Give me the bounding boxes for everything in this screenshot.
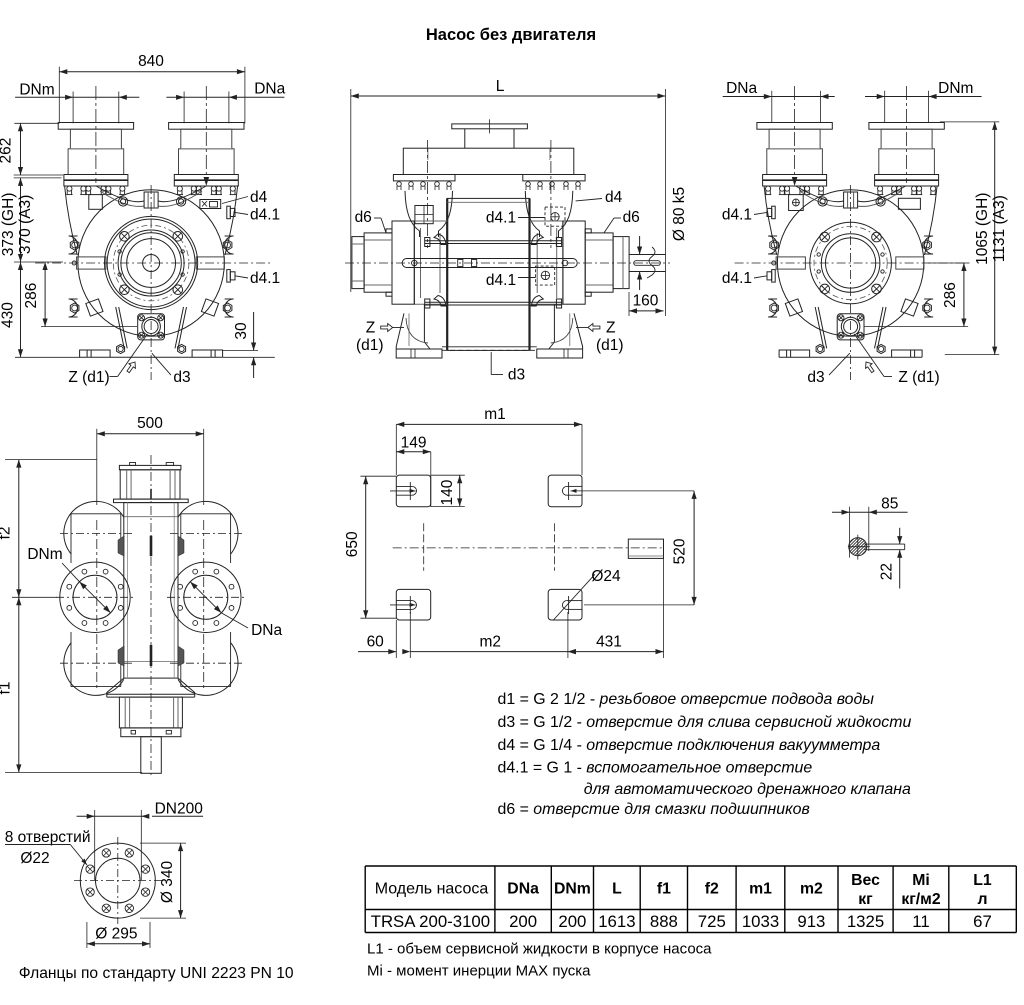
foot LL: [396, 589, 430, 620]
left horizontal stub: [77, 257, 106, 269]
right end cap: [613, 237, 629, 289]
right head plate: [562, 221, 564, 304]
left end cap: [352, 237, 364, 289]
port flange bolts: [177, 186, 183, 195]
shaft: [629, 254, 666, 256]
casing upper-left outline: [65, 186, 78, 255]
casing horizontal centerline: [35, 262, 270, 264]
svg-text:22: 22: [879, 563, 896, 580]
foot LR: [548, 589, 582, 620]
dimension 262 extension lines: [14, 122, 59, 124]
plan centerlines: [393, 547, 664, 549]
svg-text:d4: d4: [250, 189, 268, 206]
right port tube lines: [230, 514, 232, 563]
dimension 500 extension/centerlines: [96, 429, 98, 505]
svg-text:d3: d3: [807, 369, 824, 386]
svg-text:DNa: DNa: [507, 881, 539, 898]
dimension DNa line: [166, 96, 284, 98]
upper tie rod hooks: [434, 234, 446, 245]
svg-text:d3: d3: [508, 367, 525, 384]
dimension 286 extensions (right view): [928, 262, 968, 264]
svg-text:840: 840: [138, 53, 164, 70]
right port flange strip: [523, 175, 585, 181]
dimension L: [351, 95, 666, 97]
left port tube lines: [70, 514, 72, 563]
top plate: [403, 148, 574, 174]
casing upper-right lug with hex bolt: [225, 236, 234, 254]
svg-text:430: 430: [0, 302, 17, 328]
svg-text:Z: Z: [366, 320, 375, 337]
svg-text:85: 85: [881, 496, 898, 513]
svg-text:DNa: DNa: [254, 81, 285, 98]
left diagonal strut: [116, 307, 125, 348]
svg-text:DNm: DNm: [938, 80, 973, 97]
key slot: [865, 543, 905, 545]
dimension 840 extension lines: [58, 67, 60, 124]
svg-text:кг: кг: [858, 891, 873, 908]
dimension 149: [396, 451, 431, 453]
dimension Ø295: [87, 943, 150, 945]
svg-text:Модель насоса: Модель насоса: [375, 881, 489, 898]
dimension DN200 line: [77, 815, 148, 817]
port flange bolts: [66, 186, 72, 195]
svg-text:d4.1: d4.1: [722, 270, 752, 287]
port bottom flange: [64, 175, 128, 187]
svg-text:d1 = G 2 1/2 - резьбовое отвер: d1 = G 2 1/2 - резьбовое отверстие подво…: [498, 691, 875, 708]
port flange top plate: [757, 123, 832, 130]
right foot (center view): [537, 313, 583, 358]
bolts under right strip: [526, 182, 531, 187]
left view: d4.1 plug lower: [227, 270, 231, 283]
svg-text:d3 = G 1/2 - отверстие для сл: d3 = G 1/2 - отверстие для слива сервисн…: [498, 714, 912, 731]
dimension 650 extensions: [360, 475, 396, 477]
svg-text:(d1): (d1): [596, 337, 624, 354]
dimension Ø340: [180, 843, 182, 918]
svg-text:500: 500: [137, 415, 163, 432]
port flange top plate: [169, 123, 244, 130]
left head plate: [413, 221, 415, 304]
svg-text:DNm: DNm: [27, 546, 62, 563]
lower tie rod hooks: [434, 296, 446, 307]
casing upper-right outline: [924, 186, 937, 255]
shaft key slot: [634, 261, 661, 266]
tube end lines: [71, 513, 121, 515]
label d3 with leader (center view): [490, 352, 492, 374]
dimension m1 extension lines: [395, 424, 397, 475]
svg-text:d4 = G 1/4 - отверстие подклю: d4 = G 1/4 - отверстие подключения вакуу…: [498, 737, 881, 754]
svg-text:149: 149: [401, 435, 427, 452]
svg-text:67: 67: [973, 912, 992, 931]
svg-text:1131 (A3): 1131 (A3): [991, 195, 1008, 262]
svg-text:L1 - объем сервисной жидкости: L1 - объем сервисной жидкости в корпусе …: [367, 941, 712, 958]
dimension 160: [629, 310, 664, 312]
svg-text:1613: 1613: [598, 912, 635, 931]
bolts under left strip: [397, 182, 402, 187]
svg-text:1325: 1325: [847, 912, 884, 931]
feet baseline: [80, 356, 223, 358]
svg-text:140: 140: [439, 479, 456, 505]
dimension 500: [97, 433, 204, 435]
svg-text:725: 725: [698, 912, 726, 931]
port centerline: [906, 86, 908, 183]
foot UR: [548, 475, 582, 507]
dimension 431: [568, 651, 664, 653]
top lifting flange: [452, 124, 528, 129]
label d4 with leader: [222, 197, 248, 204]
bottom d1 flange corner bolts: [139, 315, 145, 321]
port neck: [881, 129, 932, 149]
dimension f1: [18, 597, 20, 772]
dimension 286 bottom extension: [41, 326, 137, 328]
port neck: [769, 129, 820, 149]
d4.1 dashed box lower: [536, 266, 555, 285]
svg-text:286: 286: [23, 283, 40, 309]
dimension 286 (right view): [963, 263, 965, 327]
Ø24 diagonal leader: [553, 574, 595, 620]
port neck: [70, 129, 121, 149]
saddle center lug: [144, 192, 158, 208]
dimension 1065/1131 extension lines: [940, 121, 999, 123]
d4.1 dashed box upper: [545, 207, 565, 226]
dimension L extension lines: [350, 89, 352, 292]
svg-text:Mi: Mi: [912, 872, 930, 889]
bottom chain extension lines: [395, 620, 397, 658]
dimension 373 (GH) / 370 (A3): [20, 178, 22, 262]
svg-text:DNm: DNm: [19, 82, 54, 99]
right horizontal stub: [896, 257, 924, 269]
svg-text:Ø 80 k5: Ø 80 k5: [671, 187, 688, 241]
bottom d1 flange square: [138, 314, 165, 340]
casing lower-left lug with hex bolt: [69, 299, 78, 317]
dimension 520: [693, 491, 695, 605]
foot notches (center view): [410, 349, 412, 358]
tie rod hooks seen from top (dark wedges): [118, 536, 124, 556]
right pedestal: [525, 191, 539, 237]
svg-text:L1: L1: [973, 872, 992, 889]
svg-text:DN200: DN200: [155, 801, 204, 818]
foot UL: [396, 475, 430, 507]
port bottom flange: [174, 175, 238, 187]
casing lower-right lug with hex bolt: [225, 299, 234, 317]
right view: d4.1 plug upper (left side): [772, 206, 776, 219]
svg-text:30: 30: [233, 322, 250, 340]
flange centerlines: [117, 837, 119, 924]
shaft section hatched circle: [849, 538, 867, 556]
port flange top plate: [58, 123, 133, 130]
dimension 140 extensions: [431, 474, 465, 476]
svg-text:L: L: [612, 881, 622, 898]
svg-text:11: 11: [912, 912, 929, 931]
gland rod capsule: [402, 259, 577, 268]
casing upper-left lug with hex bolt: [69, 236, 78, 254]
top stool body: [120, 470, 180, 499]
svg-text:d4.1: d4.1: [486, 210, 516, 227]
saddle center lug: [844, 192, 858, 208]
dimension 373/370 extension line: [14, 177, 62, 179]
svg-text:Mi - момент инерции MAX пуска: Mi - момент инерции MAX пуска: [367, 963, 591, 980]
svg-text:m1: m1: [749, 881, 772, 898]
left diagonal boss: [785, 299, 802, 316]
dimension 85: [832, 511, 908, 513]
svg-text:Ø 340: Ø 340: [159, 861, 176, 904]
bottom d1 flange square: [837, 314, 864, 340]
port flange bolts: [765, 186, 771, 195]
left diagonal strut: [815, 307, 824, 348]
dimension Ø295 extensions: [86, 922, 88, 948]
svg-text:d4: d4: [605, 189, 623, 206]
casing outer circle: [78, 190, 224, 336]
left view: upper-left square boss: [89, 195, 103, 210]
svg-text:200: 200: [509, 912, 537, 931]
DN200 extension lines: [94, 810, 96, 880]
dimension 286: [44, 262, 46, 327]
dimension 60: [358, 651, 396, 653]
port flange top plate: [869, 123, 944, 130]
stool base plate: [114, 499, 189, 503]
central body: [447, 198, 529, 350]
dimension DNa line (right view): [723, 96, 835, 98]
dimension f1 bottom extension: [5, 771, 142, 773]
svg-text:Z: Z: [606, 320, 615, 337]
svg-text:Z (d1): Z (d1): [898, 369, 939, 386]
shaft break squiggle: [647, 247, 655, 278]
dimension 149 extension line: [430, 452, 432, 507]
left foot hex bolt: [816, 344, 824, 353]
dimension f2: [18, 460, 20, 598]
svg-text:286: 286: [942, 282, 959, 308]
top stool plate: [119, 465, 180, 469]
right flange circle DNa: [171, 562, 241, 632]
left view: bolt circle dashed: [113, 225, 189, 301]
left foot pad: [80, 350, 111, 357]
svg-text:Ø 295: Ø 295: [95, 926, 137, 943]
dimension 430: [20, 262, 22, 357]
port pipe body: [179, 149, 235, 175]
left foot pad: [779, 350, 810, 357]
bottom d1 flange circles: [142, 317, 161, 336]
top view main centerline: [150, 455, 152, 776]
svg-text:m2: m2: [800, 881, 823, 898]
right view: cover bolts: [872, 232, 882, 242]
casing upper-right lug with hex bolt: [924, 236, 933, 254]
dimension 140: [459, 475, 461, 506]
flange bore circle: [96, 858, 141, 903]
flange outer circle: [80, 843, 155, 918]
casing vertical centerline: [150, 185, 152, 380]
dimension 160 extensions: [628, 292, 630, 316]
svg-text:f2: f2: [0, 527, 14, 540]
left housing bolts: [386, 229, 392, 233]
label d3 (right view) with leader: [829, 353, 850, 375]
svg-text:d6 = отверстие для смазки подш: d6 = отверстие для смазки подшипников: [498, 801, 810, 818]
svg-text:DNm: DNm: [554, 881, 591, 898]
square boss on left pedestal: [415, 206, 433, 224]
left foot (center view): [396, 313, 442, 358]
svg-text:1033: 1033: [742, 912, 779, 931]
bottom trapezoid (volute end): [107, 678, 195, 694]
svg-text:d6: d6: [623, 209, 640, 226]
svg-text:л: л: [977, 891, 987, 908]
bottom bearing bracket (top view): [119, 697, 182, 728]
svg-text:m1: m1: [484, 406, 506, 423]
dimension DNm line: [15, 96, 139, 98]
dimension 430 bottom extension: [15, 356, 80, 358]
saddle eye lug left: [119, 197, 128, 206]
520 bottom extension line: [584, 604, 694, 606]
right diagonal boss: [201, 299, 218, 316]
dimension Ø340 extensions: [140, 842, 186, 844]
svg-text:Ø24: Ø24: [591, 568, 621, 585]
flange centerlines: [56, 596, 134, 598]
svg-text:d3: d3: [173, 369, 190, 386]
right view: upper-right plain box: [898, 198, 920, 209]
svg-text:370 (A3): 370 (A3): [17, 195, 34, 254]
left port flange strip: [393, 175, 455, 181]
right view: suction bore circles: [826, 238, 876, 288]
DNm bore extension lines: [72, 92, 74, 124]
casing bottom lines: [442, 346, 537, 348]
dimension 650: [365, 476, 367, 618]
DNm bore extension lines (right view): [884, 91, 886, 123]
shaft stub (plan): [628, 539, 663, 558]
right foot hex bolt: [877, 344, 885, 353]
right diagonal boss: [901, 299, 918, 316]
svg-text:160: 160: [633, 293, 659, 310]
svg-text:262: 262: [0, 138, 15, 164]
dimension DNm line (right view): [865, 96, 982, 98]
dome centerlines: [60, 533, 132, 535]
port bottom flange: [763, 175, 827, 187]
svg-text:m2: m2: [480, 634, 502, 651]
upper-left dome arc: [64, 501, 124, 554]
left view: DNa port flow arrow: [204, 177, 210, 186]
left view: bearing cover bolts: [173, 232, 183, 242]
svg-text:Ø22: Ø22: [20, 850, 49, 867]
dimension Ø80 k5: [639, 236, 641, 255]
left pedestal: [405, 191, 420, 237]
port pipe body: [68, 149, 124, 175]
port bottom flange: [875, 175, 939, 187]
left bearing housing: [364, 233, 392, 292]
svg-text:кг/м2: кг/м2: [901, 891, 941, 908]
svg-text:373 (GH): 373 (GH): [0, 193, 17, 257]
casing top saddle arc: [96, 186, 206, 202]
svg-text:(d1): (d1): [356, 337, 384, 354]
svg-text:200: 200: [558, 912, 586, 931]
flange bolt holes: [141, 865, 149, 873]
saddle eye lug right: [876, 197, 885, 206]
dimension 22: [899, 528, 901, 544]
saddle eye lug right: [177, 197, 186, 206]
table frame: [364, 866, 366, 933]
svg-text:650: 650: [344, 531, 361, 557]
svg-text:913: 913: [797, 912, 825, 931]
svg-text:f1: f1: [657, 881, 671, 898]
label d4.1 upper with leader: [235, 212, 248, 214]
svg-text:d4.1: d4.1: [486, 272, 516, 289]
DNa bore extension lines: [183, 92, 185, 124]
svg-text:TRSA 200-3100: TRSA 200-3100: [371, 912, 490, 931]
svg-text:Z (d1): Z (d1): [68, 369, 109, 386]
casing lower-right lug with hex bolt: [924, 299, 933, 317]
left bearing bracket: [392, 221, 414, 304]
lower tie rod: [425, 301, 562, 303]
casing lower-left lug with hex bolt: [768, 299, 777, 317]
svg-text:DNa: DNa: [726, 80, 757, 97]
left view: d4.1 plug upper: [227, 206, 231, 219]
svg-text:Вес: Вес: [851, 872, 880, 889]
bottom bracket plate: [121, 728, 181, 737]
casing vertical centerline: [850, 185, 852, 380]
dimension f2 extension lines: [5, 459, 97, 461]
svg-text:431: 431: [596, 634, 622, 651]
left horizontal stub: [776, 257, 805, 269]
left flange circle DNm: [60, 562, 130, 632]
label d4.1 lower (right view): [754, 276, 767, 278]
svg-text:f2: f2: [705, 881, 719, 898]
casing horizontal centerline: [735, 262, 970, 264]
upper tie rod: [425, 240, 562, 242]
left view: hub circles (drive end): [143, 255, 160, 272]
right diagonal strut: [878, 307, 887, 348]
upper-right dome arc: [178, 501, 238, 554]
svg-text:d4.1: d4.1: [250, 207, 280, 224]
right diagonal strut: [178, 307, 187, 348]
casing top saddle arc: [796, 186, 906, 202]
center dark pin lines: [150, 536, 153, 557]
saddle eye lug left: [818, 197, 827, 206]
dimension m2: [410, 651, 568, 653]
casing upper-right outline: [225, 186, 238, 255]
right bearing housing: [585, 233, 613, 292]
right foot hex bolt: [178, 344, 186, 353]
label d4.1 upper (right view): [754, 212, 767, 214]
left view: d4 label icon box: [200, 200, 221, 209]
bottom d1 flange circles: [841, 317, 860, 336]
dimension 30 extensions: [223, 350, 258, 352]
dimension 840: [59, 71, 245, 73]
svg-text:L: L: [496, 78, 505, 95]
right view: DNa port flow arrow: [792, 177, 798, 186]
svg-text:Фланцы по стандарту UNI 2223 P: Фланцы по стандарту UNI 2223 PN 10: [19, 965, 294, 982]
port neck: [181, 129, 232, 149]
DNa bore extension lines (right view): [771, 91, 773, 123]
right view: bolt circle dashed: [814, 226, 887, 299]
svg-text:60: 60: [367, 634, 385, 651]
520 top extension line: [571, 490, 695, 492]
right foot pad: [192, 350, 223, 357]
body column: [124, 503, 178, 678]
stool center pin: [150, 489, 152, 499]
feet baseline: [779, 356, 922, 358]
port pipe body: [767, 149, 823, 175]
right horizontal stub: [196, 257, 224, 269]
label d3 with leader: [152, 353, 171, 375]
svg-text:d4.1: d4.1: [250, 270, 280, 287]
svg-text:d4.1 = G 1 - вспомогательное: d4.1 = G 1 - вспомогательное отверстие: [498, 760, 813, 777]
svg-text:8 отверстий: 8 отверстий: [5, 829, 91, 846]
right foot pad: [892, 350, 923, 357]
svg-text:520: 520: [672, 538, 689, 564]
port flange bolts: [877, 186, 883, 195]
top flange stems: [464, 129, 466, 148]
casing upper-left outline: [764, 186, 777, 255]
port centerline: [794, 86, 796, 183]
dimension 30: [253, 312, 255, 351]
svg-text:888: 888: [650, 912, 678, 931]
casing upper-left lug with hex bolt: [768, 236, 777, 254]
svg-text:f1: f1: [0, 682, 14, 695]
